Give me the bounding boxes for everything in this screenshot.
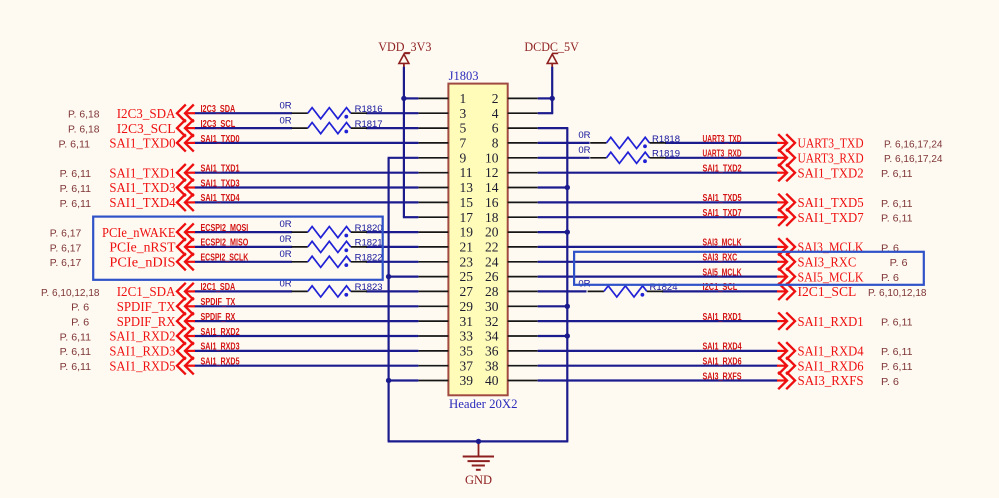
svg-text:SAI1_TXD2: SAI1_TXD2 — [798, 165, 864, 180]
svg-text:R1818: R1818 — [652, 134, 680, 145]
port SAI1_TXD3 — [109, 179, 195, 196]
wire R to pin 27 — [366, 290, 418, 292]
svg-text:SAI1_RXD3: SAI1_RXD3 — [109, 344, 175, 359]
svg-text:J1803: J1803 — [449, 69, 479, 83]
svg-text:P. 6,11: P. 6,11 — [60, 332, 92, 343]
port SAI1_TXD2 — [777, 164, 864, 181]
wire pin 26 to port — [538, 276, 778, 278]
wire pin 40 to port — [538, 379, 778, 381]
pin 20 — [485, 225, 538, 240]
wire pin 18 to port — [538, 216, 778, 218]
svg-text:P. 6,11: P. 6,11 — [60, 347, 92, 358]
wire pin 36 to port — [538, 350, 778, 352]
wire port to pin 11 — [194, 172, 418, 174]
port SAI1_RXD6 — [777, 357, 864, 374]
pin 13 — [418, 180, 473, 195]
wire port to R (row pin 3) — [194, 112, 292, 114]
svg-text:8: 8 — [492, 136, 499, 151]
svg-text:38: 38 — [485, 358, 499, 373]
port SAI3_RXFS — [777, 372, 864, 389]
power VDD_3V3 — [378, 40, 431, 68]
wire GND left vertical — [388, 158, 390, 442]
svg-text:33: 33 — [460, 329, 474, 344]
wire pin 12 to port — [538, 172, 778, 174]
svg-text:13: 13 — [460, 180, 474, 195]
svg-text:UART3_TXD: UART3_TXD — [798, 136, 864, 151]
pin 38 — [485, 358, 538, 373]
svg-text:SAI5_MCLK: SAI5_MCLK — [798, 269, 864, 284]
wire pin 32 to port — [538, 320, 778, 322]
wire port to pin 7 — [194, 142, 418, 144]
wire port to pin 33 — [194, 335, 418, 337]
wire pin 16 to port — [538, 201, 778, 203]
svg-text:SAI1_RXD4: SAI1_RXD4 — [703, 342, 742, 353]
svg-text:0R: 0R — [280, 219, 292, 230]
wire pin 30 to GND — [538, 305, 569, 307]
svg-text:UART3_TXD: UART3_TXD — [703, 134, 742, 145]
svg-text:SAI1_TXD1: SAI1_TXD1 — [201, 164, 241, 175]
svg-text:SAI3_RXFS: SAI3_RXFS — [798, 373, 864, 388]
svg-text:SAI1_RXD3: SAI1_RXD3 — [201, 342, 240, 353]
svg-text:P. 6,11: P. 6,11 — [60, 184, 92, 195]
wire pin25 to GND — [389, 276, 419, 278]
wire VDD_3V3 vertical — [403, 67, 405, 217]
svg-text:SAI1_RXD5: SAI1_RXD5 — [109, 358, 175, 373]
svg-text:SAI1_TXD4: SAI1_TXD4 — [109, 195, 175, 210]
svg-text:SAI1_RXD1: SAI1_RXD1 — [703, 312, 742, 323]
wire R to pin 21 — [366, 246, 418, 248]
pin 17 — [418, 210, 473, 225]
pin 35 — [418, 344, 473, 359]
svg-text:P. 6,11: P. 6,11 — [881, 199, 913, 210]
svg-text:28: 28 — [485, 284, 499, 299]
svg-text:P. 6,16,17,24: P. 6,16,17,24 — [884, 139, 943, 150]
svg-text:R1822: R1822 — [355, 253, 383, 264]
wire pin 20 to GND — [538, 231, 569, 233]
wire R1824 to port — [662, 290, 778, 292]
svg-text:SAI1_TXD7: SAI1_TXD7 — [703, 208, 743, 219]
pin 24 — [485, 254, 538, 269]
wire port to R (row pin 21) — [194, 246, 292, 248]
svg-text:0R: 0R — [280, 115, 292, 126]
svg-text:23: 23 — [460, 254, 474, 269]
port SAI1_TXD7 — [777, 209, 864, 226]
svg-text:P. 6,17: P. 6,17 — [50, 258, 82, 269]
resistor R1824 — [578, 279, 677, 297]
svg-text:18: 18 — [485, 210, 499, 225]
port I2C1_SCL — [777, 283, 856, 300]
port SAI1_RXD3 — [109, 342, 195, 359]
svg-text:25: 25 — [460, 269, 474, 284]
svg-text:9: 9 — [460, 150, 467, 165]
port SAI1_TXD1 — [109, 164, 195, 181]
svg-text:SAI1_TXD5: SAI1_TXD5 — [798, 195, 864, 210]
svg-text:24: 24 — [485, 254, 499, 269]
svg-text:SAI1_TXD0: SAI1_TXD0 — [109, 136, 175, 151]
pin 5 — [418, 121, 466, 136]
pin 30 — [485, 299, 538, 314]
svg-text:35: 35 — [460, 344, 474, 359]
svg-text:I2C3_SDA: I2C3_SDA — [117, 106, 176, 121]
wire port to R (row pin 27) — [194, 290, 292, 292]
svg-text:P. 6,16,17,24: P. 6,16,17,24 — [884, 154, 943, 165]
svg-text:SAI1_TXD4: SAI1_TXD4 — [201, 193, 241, 204]
svg-text:P. 6,11: P. 6,11 — [881, 347, 913, 358]
wire pin 38 to port — [538, 365, 778, 367]
svg-text:14: 14 — [485, 180, 499, 195]
pin 1 — [418, 91, 466, 106]
wire pin 22 to port — [538, 246, 778, 248]
ground GND — [463, 441, 494, 487]
highlight box PCIe group — [93, 217, 383, 280]
svg-text:UART3_RXD: UART3_RXD — [798, 151, 864, 166]
pin 4 — [492, 106, 538, 121]
svg-text:R1820: R1820 — [355, 223, 383, 234]
wire port to pin 37 — [194, 365, 418, 367]
svg-text:P. 6,11: P. 6,11 — [59, 139, 91, 150]
svg-text:SAI1_TXD5: SAI1_TXD5 — [703, 193, 743, 204]
wire pin17 to VDD_3V3 — [403, 216, 419, 218]
svg-text:R1817: R1817 — [355, 119, 383, 130]
wire pin 14 to GND — [538, 186, 569, 188]
wire port to pin 35 — [194, 350, 418, 352]
pin 33 — [418, 329, 473, 344]
svg-text:SAI3_RXC: SAI3_RXC — [703, 253, 738, 264]
svg-text:31: 31 — [460, 314, 474, 329]
port SAI1_RXD4 — [777, 342, 864, 359]
svg-text:ECSPI2_SCLK: ECSPI2_SCLK — [201, 253, 249, 264]
wire DCDC_5V vertical — [551, 67, 553, 113]
svg-text:VDD_3V3: VDD_3V3 — [378, 40, 431, 54]
svg-text:26: 26 — [485, 269, 499, 284]
svg-text:PCIe_nDIS: PCIe_nDIS — [109, 254, 175, 269]
svg-text:P. 6: P. 6 — [881, 273, 899, 284]
svg-text:ECSPI2_MISO: ECSPI2_MISO — [201, 238, 249, 249]
svg-text:21: 21 — [460, 240, 474, 255]
svg-text:R1823: R1823 — [355, 282, 383, 293]
svg-text:P. 6: P. 6 — [890, 258, 908, 269]
pin 40 — [485, 373, 538, 388]
port I2C3_SCL — [117, 119, 195, 136]
svg-text:0R: 0R — [280, 249, 292, 260]
svg-text:36: 36 — [485, 344, 499, 359]
pin 11 — [418, 165, 472, 180]
wire pin9 to GND — [388, 157, 419, 159]
svg-text:SAI1_RXD1: SAI1_RXD1 — [798, 314, 864, 329]
svg-text:P. 6,11: P. 6,11 — [881, 362, 913, 373]
junction GND/pin25 — [386, 274, 391, 279]
svg-text:I2C3_SCL: I2C3_SCL — [117, 121, 176, 136]
svg-text:P. 6: P. 6 — [71, 318, 89, 329]
svg-text:P. 6,17: P. 6,17 — [50, 243, 82, 254]
junction GND symbol — [476, 439, 481, 444]
svg-text:P. 6: P. 6 — [881, 377, 899, 388]
pin 16 — [485, 195, 538, 210]
port UART3_TXD — [777, 134, 864, 151]
port SAI3_RXC — [777, 253, 856, 270]
svg-text:P. 6,18: P. 6,18 — [68, 125, 100, 136]
svg-text:SPDIF_RX: SPDIF_RX — [117, 314, 176, 329]
pin 36 — [485, 344, 538, 359]
svg-text:34: 34 — [485, 329, 499, 344]
svg-text:R1819: R1819 — [652, 149, 680, 160]
pin 15 — [418, 195, 473, 210]
highlight box SAI3_RXC/SAI5_MCLK group — [574, 252, 924, 285]
svg-text:P. 6,10,12,18: P. 6,10,12,18 — [41, 288, 100, 299]
port PCIe_nRST — [109, 238, 195, 255]
svg-text:19: 19 — [460, 225, 474, 240]
svg-text:R1821: R1821 — [355, 238, 383, 249]
resistor R1822 — [280, 249, 383, 268]
pin 23 — [418, 254, 473, 269]
svg-text:GND: GND — [465, 473, 492, 487]
wire port to R (row pin 23) — [194, 261, 292, 263]
wire GND bottom rail — [388, 440, 569, 442]
pin 29 — [418, 299, 473, 314]
svg-text:6: 6 — [492, 121, 499, 136]
svg-text:Header 20X2: Header 20X2 — [449, 397, 518, 411]
svg-text:16: 16 — [485, 195, 499, 210]
pin 25 — [418, 269, 473, 284]
svg-text:I2C1_SDA: I2C1_SDA — [201, 282, 236, 293]
port SPDIF_TX — [117, 298, 195, 315]
svg-text:40: 40 — [485, 373, 499, 388]
wire pin 6 to GND — [538, 127, 569, 129]
svg-text:P. 6,18: P. 6,18 — [68, 110, 100, 121]
svg-text:11: 11 — [460, 165, 473, 180]
svg-text:5: 5 — [460, 121, 467, 136]
resistor R1819 — [578, 145, 680, 163]
pin 26 — [485, 269, 538, 284]
pin 37 — [418, 358, 473, 373]
svg-text:SPDIF_RX: SPDIF_RX — [201, 312, 236, 323]
resistor R1816 — [280, 101, 383, 119]
svg-text:SAI1_TXD0: SAI1_TXD0 — [201, 134, 241, 145]
junction GND/pin39 — [386, 378, 391, 383]
pin 12 — [485, 165, 538, 180]
svg-text:SPDIF_TX: SPDIF_TX — [201, 297, 236, 308]
svg-text:7: 7 — [460, 136, 467, 151]
pin 3 — [418, 106, 466, 121]
wire R to pin 5 — [366, 127, 418, 129]
svg-text:0R: 0R — [578, 130, 590, 141]
wire pin 10 to R — [538, 157, 590, 159]
resistor R1821 — [280, 234, 383, 252]
pin 19 — [418, 225, 473, 240]
svg-text:R1816: R1816 — [355, 104, 383, 115]
port UART3_RXD — [777, 149, 864, 166]
svg-text:P. 6,11: P. 6,11 — [60, 169, 92, 180]
svg-text:PCIe_nRST: PCIe_nRST — [109, 240, 176, 255]
svg-text:DCDC_5V: DCDC_5V — [524, 40, 579, 54]
pin 6 — [492, 121, 538, 136]
svg-text:P. 6,11: P. 6,11 — [881, 318, 913, 329]
svg-text:SAI1_RXD2: SAI1_RXD2 — [201, 327, 240, 338]
svg-text:SPDIF_TX: SPDIF_TX — [117, 299, 176, 314]
svg-text:SAI1_TXD1: SAI1_TXD1 — [109, 165, 175, 180]
svg-text:29: 29 — [460, 299, 474, 314]
svg-text:SAI1_RXD4: SAI1_RXD4 — [798, 344, 864, 359]
junction VDD/pin1 — [401, 96, 406, 101]
svg-text:P. 6,11: P. 6,11 — [881, 169, 913, 180]
pin 22 — [485, 240, 538, 255]
junction GND/pin30 — [565, 304, 570, 309]
svg-text:SAI5_MCLK: SAI5_MCLK — [703, 267, 742, 278]
svg-text:3: 3 — [460, 106, 467, 121]
port SPDIF_RX — [117, 312, 195, 329]
junction GND/pin34 — [565, 333, 570, 338]
pin 27 — [418, 284, 473, 299]
pin 39 — [418, 373, 473, 388]
svg-text:32: 32 — [485, 314, 499, 329]
pin 8 — [492, 136, 538, 151]
resistor R1820 — [280, 219, 383, 238]
svg-text:P. 6,11: P. 6,11 — [881, 214, 913, 225]
port SAI1_RXD2 — [109, 327, 195, 344]
port I2C1_SDA — [117, 283, 195, 300]
svg-text:22: 22 — [485, 240, 499, 255]
pin 28 — [485, 284, 538, 299]
junction GND/pin14 — [565, 185, 570, 190]
wire pin 8 to R — [538, 142, 590, 144]
pin 21 — [418, 240, 473, 255]
port I2C3_SDA — [117, 105, 195, 123]
pin 14 — [485, 180, 538, 195]
port SAI1_RXD1 — [777, 312, 864, 329]
wire R to pin 23 — [366, 261, 418, 263]
port SAI1_TXD0 — [109, 134, 195, 151]
svg-text:SAI1_RXD6: SAI1_RXD6 — [798, 358, 864, 373]
svg-text:SAI1_TXD3: SAI1_TXD3 — [201, 178, 241, 189]
svg-text:0R: 0R — [280, 101, 292, 112]
connector J1803 — [448, 69, 517, 411]
port SAI1_TXD4 — [109, 194, 195, 211]
wire port to pin 31 — [194, 320, 418, 322]
svg-text:P. 6: P. 6 — [71, 303, 89, 314]
wire port to pin 15 — [194, 201, 418, 203]
power DCDC_5V — [524, 40, 579, 67]
svg-text:I2C3_SCL: I2C3_SCL — [201, 119, 236, 130]
wire pin 24 to port — [538, 261, 778, 263]
svg-text:I2C1_SDA: I2C1_SDA — [117, 284, 176, 299]
svg-text:SAI1_TXD2: SAI1_TXD2 — [703, 164, 743, 175]
port SAI1_TXD5 — [777, 194, 864, 211]
pin 7 — [418, 136, 466, 151]
pin 10 — [485, 150, 538, 165]
wire pin39 to GND — [389, 379, 419, 381]
svg-text:P. 6,11: P. 6,11 — [60, 199, 92, 210]
svg-text:SAI1_TXD3: SAI1_TXD3 — [109, 180, 175, 195]
port PCIe_nWAKE — [102, 223, 195, 240]
pin 31 — [418, 314, 473, 329]
svg-text:P. 6,10,12,18: P. 6,10,12,18 — [868, 288, 927, 299]
svg-text:10: 10 — [485, 150, 499, 165]
svg-text:4: 4 — [492, 106, 499, 121]
wire GND right vertical — [566, 128, 568, 441]
wire pin4 to DCDC_5V — [538, 112, 554, 114]
svg-text:39: 39 — [460, 373, 474, 388]
svg-text:1: 1 — [460, 91, 467, 106]
resistor R1817 — [280, 115, 383, 133]
svg-text:I2C3_SDA: I2C3_SDA — [201, 104, 236, 115]
port SAI3_MCLK — [777, 238, 864, 255]
port PCIe_nDIS — [109, 253, 195, 270]
resistor R1818 — [578, 130, 680, 148]
wire port to pin 29 — [194, 305, 418, 307]
svg-text:12: 12 — [485, 165, 499, 180]
svg-text:20: 20 — [485, 225, 499, 240]
svg-text:17: 17 — [460, 210, 474, 225]
svg-text:UART3_RXD: UART3_RXD — [703, 149, 742, 160]
pin 9 — [418, 150, 466, 165]
svg-text:P. 6,17: P. 6,17 — [50, 229, 82, 240]
svg-text:SAI3_MCLK: SAI3_MCLK — [703, 238, 742, 249]
wire pin 34 to GND — [538, 335, 569, 337]
port SAI5_MCLK — [777, 268, 864, 285]
svg-text:0R: 0R — [280, 234, 292, 245]
pin 32 — [485, 314, 538, 329]
wire R to pin 3 — [366, 112, 418, 114]
junction GND/pin20 — [565, 229, 570, 234]
svg-text:30: 30 — [485, 299, 499, 314]
wire R to pin 19 — [366, 231, 418, 233]
pin 34 — [485, 329, 538, 344]
resistor R1823 — [280, 279, 383, 297]
wire R to port (row pin 8) — [665, 142, 778, 144]
svg-text:15: 15 — [460, 195, 474, 210]
pin 2 — [492, 91, 538, 106]
svg-text:SAI1_TXD7: SAI1_TXD7 — [798, 210, 864, 225]
svg-text:SAI1_RXD2: SAI1_RXD2 — [109, 329, 175, 344]
wire R to port (row pin 10) — [665, 157, 778, 159]
junction DCDC/pin2 — [550, 96, 555, 101]
svg-text:ECSPI2_MOSI: ECSPI2_MOSI — [201, 223, 249, 234]
svg-text:PCIe_nWAKE: PCIe_nWAKE — [102, 225, 176, 240]
wire pin1 to VDD_3V3 — [403, 97, 419, 99]
port SAI1_RXD5 — [109, 357, 195, 374]
svg-text:0R: 0R — [578, 145, 590, 156]
svg-text:I2C1_SCL: I2C1_SCL — [798, 284, 857, 299]
wire port to R (row pin 19) — [194, 231, 292, 233]
svg-text:2: 2 — [492, 91, 499, 106]
wire pin2 to DCDC_5V — [538, 97, 554, 99]
svg-text:P. 6,11: P. 6,11 — [60, 362, 92, 373]
svg-text:27: 27 — [460, 284, 474, 299]
wire pin28 to R1824 — [538, 290, 587, 292]
wire port to R (row pin 5) — [194, 127, 292, 129]
svg-text:37: 37 — [460, 358, 474, 373]
svg-text:SAI1_RXD5: SAI1_RXD5 — [201, 357, 240, 368]
svg-text:SAI3_RXC: SAI3_RXC — [798, 254, 857, 269]
wire port to pin 13 — [194, 186, 418, 188]
svg-text:SAI1_RXD6: SAI1_RXD6 — [703, 357, 742, 368]
svg-text:SAI3_RXFS: SAI3_RXFS — [703, 371, 742, 382]
pin 18 — [485, 210, 538, 225]
